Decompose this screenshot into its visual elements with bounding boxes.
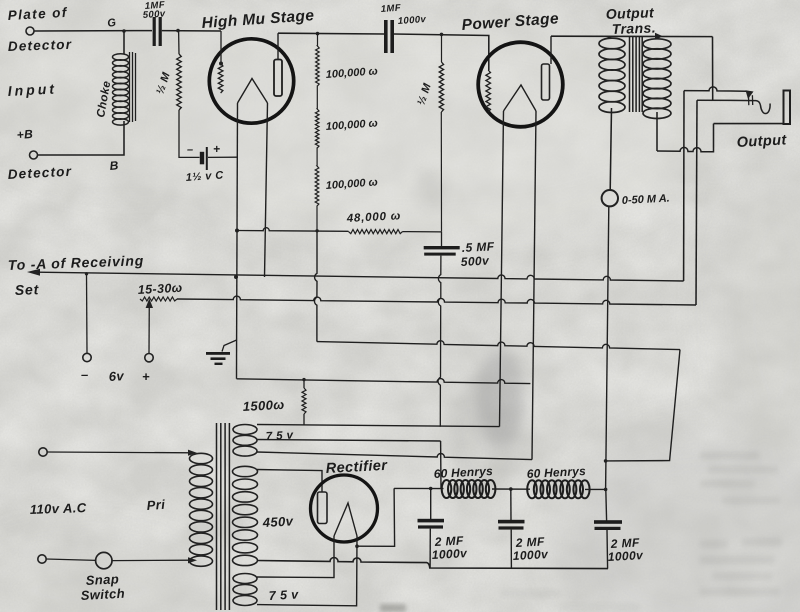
plate bar (high-mu) (274, 60, 282, 97)
wire B+ mid bus drop to filter (606, 350, 680, 461)
grid zigzag (power) (486, 70, 491, 112)
tube envelope rectifier (311, 475, 378, 542)
wire A-minus bus (To -A line) (38, 272, 684, 281)
wire into grid (high-mu) (220, 31, 222, 55)
choke 60 Henrys #1 (442, 480, 452, 498)
junction dot cap2 (509, 487, 513, 491)
output transformer core (629, 37, 631, 112)
arrowhead A- bus (27, 269, 40, 276)
svg-text:Detector: Detector (8, 37, 73, 54)
terminal minus (83, 353, 91, 361)
wire snap switch to primary (112, 559, 193, 561)
svg-text:Input: Input (7, 80, 57, 99)
svg-text:B: B (109, 158, 119, 173)
jack frame bottom (714, 123, 784, 125)
secondary 7.5v winding (power tubes) (233, 425, 257, 435)
scan smudge (476, 348, 524, 448)
svg-text:110v A.C: 110v A.C (30, 500, 87, 517)
resistor half-meg grid leak (high-mu) (178, 31, 180, 54)
secondary 450v winding (233, 466, 258, 476)
wire rheostat bus to jack tip riser (177, 296, 696, 305)
wire meter down to filter output (606, 206, 609, 489)
svg-text:1500ω: 1500ω (242, 397, 285, 414)
terminal +B detector (30, 151, 38, 159)
resistor 1500w (303, 379, 305, 388)
jack tip spring with hook (697, 100, 770, 113)
wire 48k row (237, 228, 349, 232)
secondary 7.5v winding (rectifier) (233, 574, 257, 584)
wire battery to filament leg (208, 156, 237, 158)
junction dot 48k row left (235, 229, 239, 233)
svg-text:1MF: 1MF (380, 3, 401, 15)
wire plus terminal up with arrowhead (148, 300, 150, 353)
output transformer secondary coil (657, 37, 661, 39)
terminal AC top (39, 448, 47, 456)
svg-text:.5 MF: .5 MF (461, 239, 495, 255)
svg-text:1000v: 1000v (512, 547, 549, 563)
terminal plate-of-detector (26, 27, 34, 35)
wire jack sleeve down (to A- bus) (683, 91, 685, 281)
resistor 15-30w rheostat (140, 297, 177, 301)
svg-text:450v: 450v (261, 513, 294, 530)
wire jack frame to secondary return (713, 124, 715, 148)
output transformer primary coil (607, 36, 612, 38)
rectifier plate bar (318, 492, 328, 524)
grid leak half-meg (power) top section (441, 34, 443, 62)
meter 0-50 MA (602, 190, 618, 206)
ground symbol (206, 352, 230, 355)
wire top to jack tip contact (712, 37, 714, 100)
wire high-mu plate to 1MF 1000v cap (278, 32, 384, 35)
snap switch (96, 552, 112, 568)
junction dot filter output (604, 459, 608, 463)
junction dot 1500 top (302, 378, 305, 381)
filament V (power) (504, 85, 537, 111)
wire 450v bottom to filter ground bus (257, 558, 608, 569)
scan bleed artifacts (500, 452, 782, 611)
wire AC top to primary (47, 451, 193, 454)
svg-text:500v: 500v (142, 8, 166, 21)
svg-text:0-50 M A.: 0-50 M A. (622, 193, 670, 207)
junction dot resistor chain top (316, 32, 320, 36)
choke 60 Henrys #2 (527, 480, 537, 498)
svg-text:Plate of: Plate of (7, 5, 68, 23)
wire B+ mid bus y342 (from chain bottom) (317, 341, 680, 350)
wire filter input line (394, 487, 443, 489)
ground lead (222, 340, 237, 352)
junction dot cap1 (429, 487, 433, 491)
transformer core (216, 423, 218, 610)
junction dot G (122, 29, 126, 33)
junction dot half-meg power (440, 33, 444, 37)
svg-text:500v: 500v (460, 253, 490, 269)
svg-text:Rectifier: Rectifier (325, 458, 388, 477)
tube envelope power stage (478, 42, 563, 127)
plate lead up (power) (550, 36, 552, 64)
high-mu left filament leg (236, 103, 239, 340)
svg-text:–: – (81, 367, 89, 382)
wire primary bottom to meter (610, 108, 611, 190)
svg-text:7 5 v: 7 5 v (268, 587, 299, 603)
svg-text:+: + (142, 369, 150, 384)
primary coil (190, 453, 213, 463)
svg-text:Set: Set (15, 281, 40, 298)
capacitor 1MF 500v (153, 17, 156, 46)
rectifier right leg to 7.5v winding (257, 536, 357, 606)
svg-text:7 5 v: 7 5 v (266, 430, 294, 443)
resistor chain 100,000w x3 (315, 34, 319, 231)
wire .5MF bottom down long drop (438, 256, 441, 427)
chain continuation down to B+ mid bus corner (315, 231, 318, 342)
jack contact ticks (748, 95, 750, 105)
svg-text:Output: Output (736, 132, 787, 151)
junction dot filter out (604, 488, 608, 492)
jack return wire with hops (657, 147, 714, 151)
terminal plus (145, 354, 153, 362)
power left leg (500, 111, 504, 427)
junction dot A- at left filament leg (234, 275, 238, 279)
wire minus terminal drop (86, 274, 89, 354)
svg-text:15-30ω: 15-30ω (137, 281, 183, 297)
wire leak to C battery (179, 110, 200, 157)
svg-text:–: – (187, 144, 194, 156)
wire 7.5v tap line y441 (257, 440, 441, 442)
wire power plate to output transformer and jack (551, 35, 713, 37)
wire cap to grid corner (162, 30, 221, 32)
wire choke bottom to +B (38, 121, 124, 155)
svg-text:1000v: 1000v (431, 546, 468, 562)
svg-text:+: + (213, 142, 220, 156)
terminal AC bottom (38, 555, 46, 563)
jack sleeve contact line (684, 87, 746, 91)
plate lead up (high-mu) (277, 33, 279, 59)
rectifier left leg to 7.5v winding (257, 536, 334, 578)
svg-text:6v: 6v (108, 368, 124, 384)
arrowhead on top wire (655, 33, 663, 40)
svg-text:1000v: 1000v (397, 14, 426, 27)
wire 1MF1000 to power grid (394, 34, 489, 70)
capacitor 2MF #1 (430, 489, 432, 520)
wire secondary bottom down to jack return (656, 112, 658, 151)
svg-text:+B: +B (16, 127, 33, 142)
wire detector plate to G node (34, 30, 152, 32)
wire 7.5v bottom line y453 (257, 452, 532, 460)
wire bias line y379 (237, 379, 531, 384)
capacitor 1MF 1000v (384, 20, 388, 53)
high-mu right filament leg (265, 103, 268, 277)
wire choke2 to output node (585, 488, 606, 490)
svg-text:Pri: Pri (146, 497, 166, 513)
junction dot A- at minus terminal (85, 272, 88, 275)
plate bar (power) (542, 64, 550, 100)
capacitor 2MF #3 (605, 489, 608, 520)
svg-text:Trans.: Trans. (612, 19, 657, 37)
jack body plate (784, 91, 791, 125)
capacitor 2MF #2 (510, 489, 512, 520)
junction dot half-meg top (176, 29, 180, 33)
wire jack tip down (to rheostat bus) (696, 100, 697, 305)
wire tap drop to filter input (440, 441, 442, 488)
power right leg (532, 111, 536, 460)
rectifier filament V (334, 503, 357, 536)
battery C 1.5v (200, 152, 204, 165)
tube envelope U1 high-mu (209, 39, 293, 123)
B+ tap on rectifier filament (355, 544, 359, 548)
svg-text:Switch: Switch (80, 586, 125, 603)
choke core lines (129, 52, 131, 122)
grid zigzag (high-mu) (220, 55, 222, 63)
svg-text:1000v: 1000v (607, 548, 644, 564)
wire AC bottom to snap switch (46, 559, 95, 560)
junction dot 48k chain (315, 229, 318, 232)
jack arrow (746, 90, 754, 99)
wire between chokes (492, 488, 530, 490)
capacitor .5MF 500v (441, 232, 443, 246)
wire 450v top to rect plate (257, 470, 322, 493)
filament V (high-mu) (238, 79, 268, 104)
wire 7.5v top line y427 (257, 425, 500, 427)
choke coil (detector plate choke) (123, 31, 125, 54)
